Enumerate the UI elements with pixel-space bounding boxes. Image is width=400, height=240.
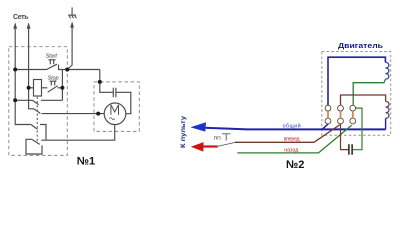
wire contact3 out bbox=[40, 125, 46, 141]
dashed enclosure box starter bbox=[9, 47, 68, 156]
capacitor C2 plates bbox=[349, 144, 352, 155]
contact KM1.1 blade bbox=[33, 100, 39, 104]
svg-text:Start: Start bbox=[46, 54, 58, 60]
arrow blue K pultu bbox=[190, 122, 206, 131]
wire aux contact row bbox=[15, 99, 32, 101]
wire start row bbox=[15, 69, 46, 71]
svg-text:вперед: вперед bbox=[284, 136, 300, 142]
wire motor phase top bbox=[42, 113, 105, 115]
ground wire bbox=[67, 27, 72, 70]
wire blue W2 to common bbox=[385, 118, 387, 129]
switch PP actuator bbox=[222, 134, 231, 141]
node coil-L2 bbox=[27, 86, 31, 90]
svg-text:К пульту: К пульту bbox=[180, 115, 187, 148]
svg-text:ПП: ПП bbox=[214, 136, 221, 142]
arrowhead ground wire bbox=[70, 21, 74, 27]
terminal T4 bbox=[325, 118, 331, 124]
svg-text:Двигатель: Двигатель bbox=[338, 41, 384, 50]
node motor-in bbox=[96, 112, 100, 116]
switch SB1 Start post bbox=[59, 65, 100, 70]
capacitor C1 plates bbox=[113, 88, 116, 98]
svg-text:Сеть: Сеть bbox=[13, 14, 29, 21]
dashed motor box bbox=[322, 52, 391, 136]
node box-top bbox=[98, 80, 102, 84]
motor M1 circle bbox=[104, 103, 126, 125]
switch SB2 Stop post bbox=[58, 87, 63, 89]
ground symbol bbox=[68, 7, 76, 18]
wire coil left bbox=[29, 87, 34, 89]
arrow red K pultu bbox=[191, 142, 204, 152]
label motor tilde bbox=[109, 118, 115, 120]
node L1-aux bbox=[13, 98, 17, 102]
arrowhead mains L2 bbox=[27, 22, 31, 28]
svg-text:№1: №1 bbox=[77, 155, 95, 167]
contact KM1.3 blade bbox=[31, 125, 37, 130]
thermal relay heater loop bbox=[26, 139, 42, 154]
mechanical link dashed bbox=[36, 97, 38, 142]
wire right rail bbox=[61, 70, 63, 101]
terminal T1 bbox=[325, 105, 331, 111]
terminal T6 bbox=[350, 118, 356, 124]
wire capacitor right lead green bbox=[353, 108, 362, 150]
jumper link3 bbox=[352, 111, 354, 118]
jumper link2 bbox=[340, 111, 342, 118]
wire capacitor right bbox=[116, 92, 131, 113]
wire coil right bbox=[42, 87, 48, 89]
winding W2 squiggle bbox=[386, 102, 389, 119]
wire green nazad bbox=[237, 125, 351, 153]
switch SB2 Stop blade bbox=[48, 86, 58, 93]
wire aux contact out bbox=[41, 99, 62, 101]
wire brown vpered bbox=[235, 125, 340, 142]
contact KM1.2 blade bbox=[34, 109, 40, 114]
wire blue common obshchiy bbox=[205, 128, 386, 130]
arrowhead mains L1 bbox=[13, 22, 17, 28]
thermal relay contact blade bbox=[32, 140, 39, 145]
label M motor bbox=[111, 105, 119, 115]
switch PP blade bbox=[218, 142, 235, 146]
terminal T3 bbox=[350, 105, 356, 111]
svg-text:общий: общий bbox=[283, 122, 301, 129]
coil KM1 bbox=[34, 80, 42, 97]
wire green W1 to terminal bbox=[353, 79, 385, 105]
wire mains L1 rail bbox=[15, 28, 31, 125]
wire motor return bottom bbox=[41, 125, 114, 141]
wire to capacitor down bbox=[100, 70, 114, 93]
winding W1 squiggle bbox=[385, 62, 388, 79]
wire brown W2 feed bbox=[341, 95, 386, 105]
terminal circles top row bbox=[325, 105, 356, 124]
junction dots schematic 1 bbox=[13, 67, 102, 115]
wire red stub bbox=[203, 145, 217, 147]
node ground-tap bbox=[65, 67, 69, 71]
terminal T5 bbox=[338, 118, 344, 124]
node L1-start bbox=[13, 68, 17, 72]
node stop-rail bbox=[60, 86, 64, 90]
jumper link1 bbox=[327, 111, 329, 118]
terminal T2 bbox=[338, 105, 344, 111]
wire blue branch to loop bbox=[322, 124, 328, 129]
svg-text:назад: назад bbox=[284, 147, 298, 153]
switch SB1 Start plunger bbox=[49, 60, 56, 64]
dashed enclosure box motor bbox=[94, 82, 139, 131]
wire capacitor left lead brown bbox=[341, 124, 349, 150]
wire mains L2 rail bbox=[29, 28, 34, 109]
svg-text:№2: №2 bbox=[286, 159, 304, 171]
switch SB1 Start blade bbox=[47, 64, 58, 69]
wire blue top loop bbox=[328, 57, 385, 105]
switch SB2 Stop plunger bbox=[50, 81, 57, 85]
svg-text:Stop: Stop bbox=[48, 76, 59, 82]
